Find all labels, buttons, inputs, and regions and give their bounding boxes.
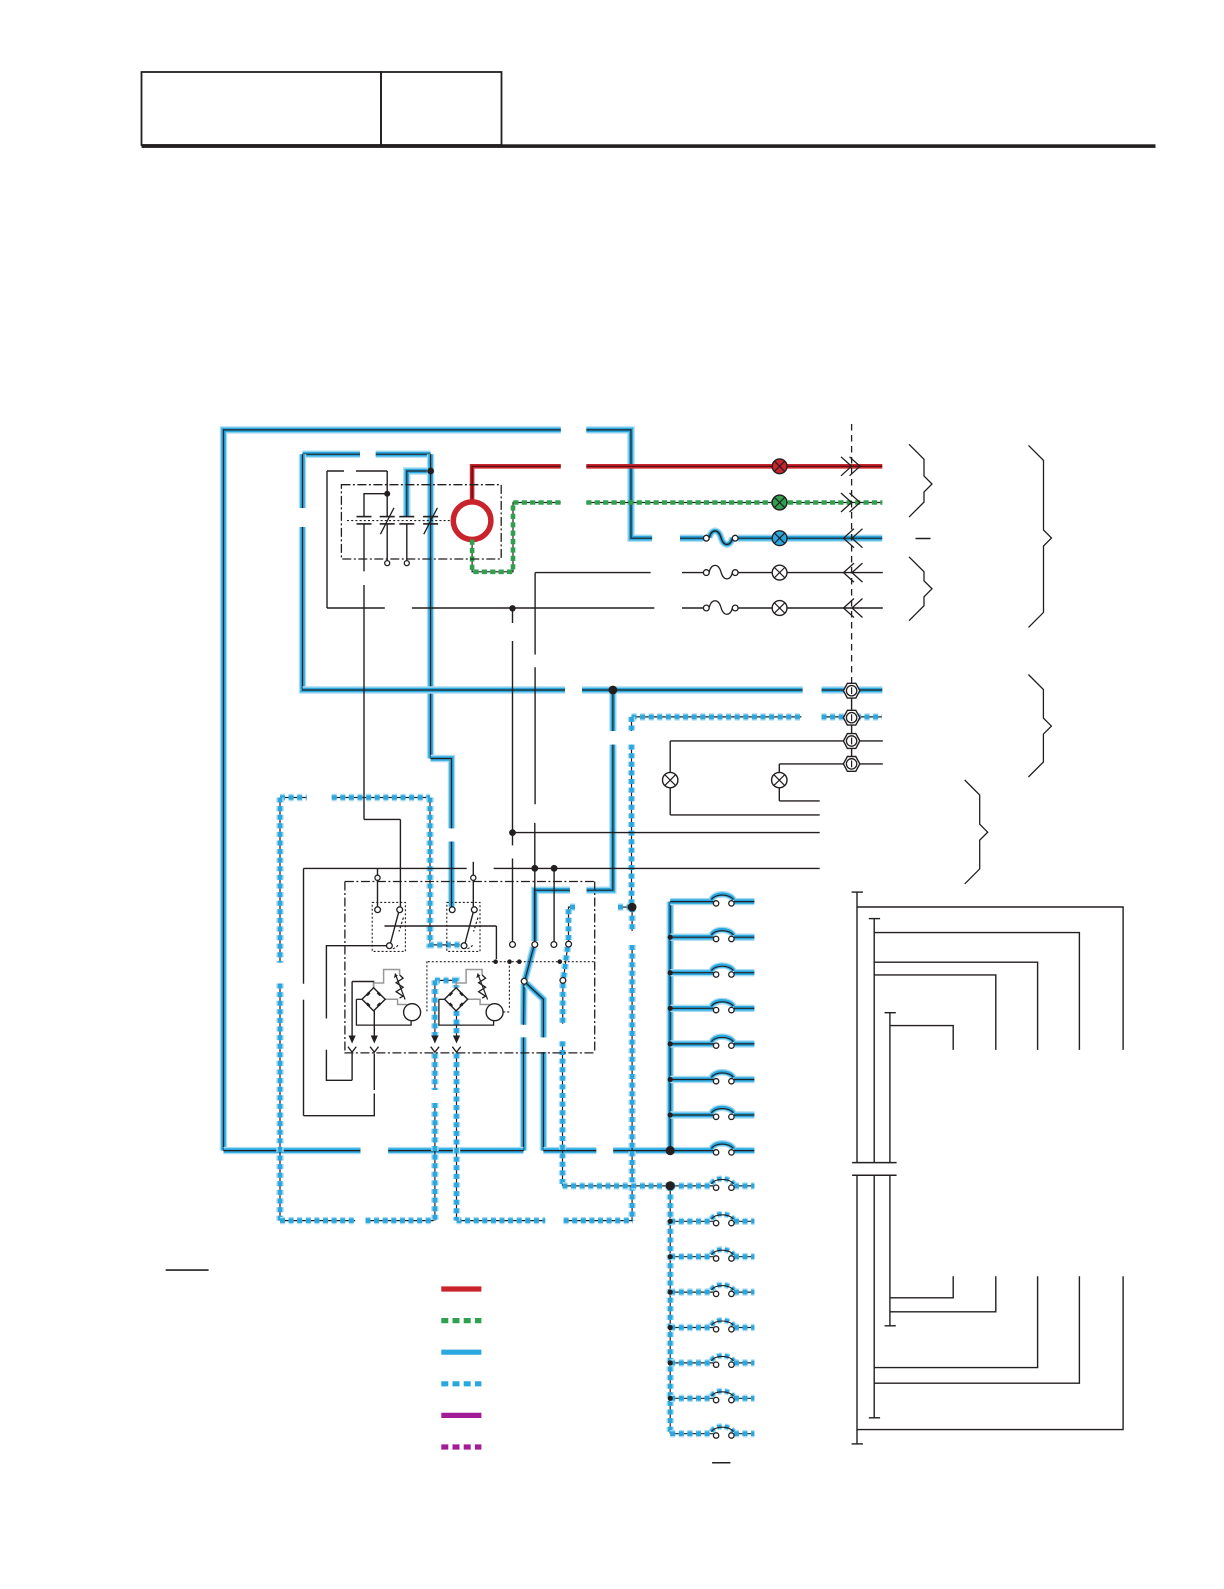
ignition contact b plates: [380, 508, 395, 534]
wire: green dashed right segment: [586, 502, 882, 504]
wire: ladder dashed rail: [669, 1186, 671, 1434]
relay K2 pins: [449, 907, 477, 949]
connector boundary dashed line: [851, 424, 853, 684]
contact C lower pin: [404, 561, 409, 566]
ground bus V1: [852, 892, 863, 1163]
ground bus V3 lower branch b: [890, 1276, 996, 1312]
dashed circuit breaker row 1: [712, 1179, 735, 1191]
wire: switch output solid 1: [520, 984, 528, 1151]
junction dot blue main: [609, 686, 618, 695]
switch pin P2: [532, 942, 538, 948]
dashed ladder junction dot 3: [668, 1254, 673, 1259]
wire: blue bottom to ladder: [543, 1147, 670, 1154]
brace D (bolt rows): [1028, 675, 1051, 778]
motor assembly A2 body (bridge rectifier, resistor, motor): [439, 970, 503, 1026]
connector chevrons red row: [841, 457, 860, 476]
wire: thin box left edge: [326, 471, 328, 608]
dashed ladder junction dot big: [666, 1181, 675, 1190]
lamp symbol row 2 circle-X: [772, 601, 787, 616]
bolt B4 (lamp row 2): [843, 757, 859, 772]
connector arrow A1 right: [371, 1036, 378, 1044]
ladder junction dot 3: [668, 970, 673, 975]
ground bus V2: [869, 919, 880, 1163]
circuit breaker row 7: [712, 1108, 735, 1120]
circuit breaker row 3: [712, 965, 735, 977]
wire: blue branch B jog to relay K2: [431, 759, 452, 907]
junction dot blue dashed: [628, 903, 637, 912]
ignition switch dash-dot box: [341, 485, 501, 559]
wire: dashed ladder rung 2: [670, 1220, 754, 1222]
wire: blue main horizontal: [303, 686, 883, 694]
switch pin P1: [510, 942, 516, 948]
lamp symbol red circle-X: [772, 459, 787, 474]
wire: thin box top edge: [327, 470, 387, 472]
wire: blue main loop top right segment: [586, 430, 652, 538]
relay K2 dotted box: [447, 902, 480, 951]
wire: ladder solid rail: [667, 902, 674, 1151]
junction dot blue branch: [427, 468, 434, 475]
dotted linkage line: [428, 961, 595, 963]
dash mark bottom: [712, 1462, 730, 1464]
circuit breaker row 6: [712, 1072, 735, 1084]
ground bus V2 lower branch b: [874, 1276, 1079, 1383]
wire: blue dashed rect top: [280, 797, 430, 799]
relay K2 arm: [465, 912, 473, 943]
wire: switch feed x535: [534, 573, 536, 942]
ground bus V3 lower: [885, 1175, 896, 1326]
ground bus V3 lower branch a: [890, 1276, 953, 1298]
wire: blue branch B left vertical: [299, 454, 306, 689]
wire: contact B tail: [386, 524, 388, 560]
ignition contact d plates: [423, 508, 438, 534]
dash mark left: [166, 1269, 209, 1271]
connector chevron A2 left: [431, 1047, 439, 1053]
connector chevron A2 right: [452, 1047, 460, 1053]
switch common pin P5: [521, 978, 527, 984]
ladder junction dot 2: [668, 935, 673, 940]
contact B lower pin: [385, 561, 390, 566]
bolt B1 (blue solid row): [843, 683, 859, 698]
wire: ladder rung 7: [670, 1111, 754, 1118]
lamp L1 circle-X: [663, 772, 678, 787]
brace E (lamp circuit rows): [965, 780, 988, 884]
wire: contact C tail: [406, 524, 408, 560]
wire: ladder rung 6: [670, 1076, 754, 1083]
fuse F2 (row 1): [703, 565, 738, 579]
connector chevrons green row: [841, 493, 860, 512]
junction dot y868 b: [551, 865, 558, 872]
circuit breaker row 5: [712, 1037, 735, 1049]
lamp symbol row 1 circle-X: [772, 565, 787, 580]
wire: lamp L1 leads: [670, 741, 820, 815]
connector chevrons blue row: [844, 529, 863, 548]
box edge pin circle 2: [471, 875, 476, 880]
connector arrow A2 left: [431, 1036, 438, 1044]
brace A (red green rows): [909, 444, 932, 517]
dashed circuit breaker row 6: [712, 1356, 735, 1368]
ground bus V2 branch a: [874, 933, 1079, 1050]
component dash-dot box: [344, 882, 594, 1053]
bolt B2 (blue dashed row): [843, 710, 859, 725]
circuit breaker row 8: [712, 1143, 735, 1155]
wire: sense line y832: [513, 832, 820, 834]
ground bus V3: [885, 1013, 896, 1163]
ladder junction dot 5: [668, 1041, 673, 1046]
wire: blue branch B horizontal: [303, 451, 431, 458]
ground bus V3 branch: [890, 1026, 953, 1050]
wire: red feed right segment: [586, 464, 882, 469]
legend: blue solid: [441, 1350, 481, 1355]
ground bus V2 lower branch a: [874, 1276, 1037, 1367]
wire: contact A tail: [363, 524, 365, 571]
linkage dot 1: [493, 959, 498, 964]
wire: box pin 1 feed: [377, 868, 379, 906]
ground bus junction bars: [852, 1163, 897, 1176]
box edge pin circle 1: [375, 875, 380, 880]
wire: blue main vertical drop: [535, 690, 613, 941]
wire: switch feed x512: [512, 608, 514, 941]
junction dot row 2: [509, 605, 515, 611]
wire: dashed ladder rung 4: [670, 1291, 754, 1293]
legend: red solid: [441, 1286, 481, 1291]
legend: blue dashed: [441, 1381, 481, 1386]
connector chevron A1 right: [370, 1047, 378, 1053]
connector chevrons row 2: [844, 599, 863, 618]
linkage dot 2: [507, 959, 512, 964]
wire: motor assembly A1 feed: [352, 982, 374, 1038]
wire: dashed feed to dashed ladder: [563, 1185, 671, 1187]
wire: switch output solid 2: [527, 984, 544, 1151]
wire: blue dashed main vertical: [631, 717, 633, 907]
lamp symbol blue circle-X: [772, 531, 787, 546]
wire: ignition feed long vertical: [364, 585, 400, 907]
circuit breaker row 4: [712, 1001, 735, 1013]
ground bus V2 lower: [869, 1175, 880, 1418]
brace C (large all feed rows): [1029, 445, 1052, 627]
switch pin P3: [551, 942, 557, 948]
wire: switch feed x554: [553, 868, 555, 941]
wire: blue dashed rect right to relay K2: [430, 798, 460, 945]
relay K1 arm: [391, 912, 399, 943]
wire: dashed ladder rung 7: [670, 1397, 754, 1399]
wire: dashed ladder rung 6: [670, 1362, 754, 1364]
ignition contact a plates: [357, 517, 372, 524]
wire: red feed from gauge: [472, 466, 561, 502]
dashed ladder junction dot 2: [668, 1219, 673, 1224]
wire: blue dashed row y717: [632, 716, 883, 718]
wire: blue bottom return left: [224, 1147, 524, 1154]
wire: motor assembly A2 feed: [435, 980, 456, 1037]
relay K1 dotted box: [372, 902, 405, 951]
wire: A2 return: [456, 1011, 458, 1037]
ladder junction dot 7: [668, 1112, 673, 1117]
wire: lamp feed row 2: [779, 763, 883, 765]
wire: dashed ladder rung 1: [670, 1185, 754, 1187]
ladder junction dot 6: [668, 1077, 673, 1082]
wire: switch arm blue solid: [525, 947, 533, 979]
wire: A1 return: [373, 1011, 375, 1037]
dashed ladder junction dot 6: [668, 1360, 673, 1365]
wire: ladder rung 8: [670, 1147, 754, 1154]
wire: blue main loop left vertical and top edge: [224, 430, 561, 1151]
wire: A2 left below box: [434, 1054, 436, 1221]
wire: blue fuse row stub: [680, 535, 703, 542]
dashed circuit breaker row 4: [712, 1285, 735, 1297]
ground bus V1 branch: [857, 907, 1123, 1050]
bolt column links: [851, 698, 853, 757]
wire: blue fuse row to connector: [738, 535, 882, 542]
wire: blue dashed branch to switch: [569, 907, 633, 941]
wire: linkage corner drop: [495, 926, 497, 959]
dashed ladder junction dot 7: [668, 1396, 673, 1401]
lamp L2 circle-X: [772, 772, 787, 787]
wire: A2 return below box: [456, 1054, 458, 1221]
linkage dot 4: [558, 959, 563, 964]
ground bus V2 branch c: [874, 975, 996, 1050]
ground bus V2 branch b: [874, 962, 1037, 1050]
header title block boxes: [142, 72, 502, 145]
wire: switch arm blue dashed: [564, 947, 568, 978]
lamp symbol green circle-X: [772, 495, 787, 510]
legend: purple dashed: [441, 1444, 481, 1449]
brace B (fused rows): [909, 557, 932, 621]
wire: blue dashed rect bottom: [280, 1220, 633, 1222]
junction dot contact stem: [384, 491, 390, 497]
wire: dashed ladder rung 3: [670, 1256, 754, 1258]
legend: green dashed: [441, 1318, 481, 1323]
wire: sense line y868: [304, 868, 820, 1115]
wire: accessory feed row 1 right: [682, 572, 883, 574]
wire: green dashed from gauge bottom: [472, 503, 561, 572]
connector chevrons row 1: [844, 563, 863, 582]
dashed ladder junction dot 4: [668, 1290, 673, 1295]
wire: A1 left below box: [351, 1054, 353, 1081]
legend: purple solid: [441, 1413, 481, 1418]
wire: A1 return below box: [304, 1054, 375, 1116]
wire: lamp L2 leads: [779, 764, 819, 801]
linkage dot 3: [517, 959, 522, 964]
circuit breaker row 1: [712, 894, 735, 906]
wire: ladder rung 4: [670, 1005, 754, 1012]
junction dot y832: [509, 829, 516, 836]
switch pin P4: [566, 941, 572, 947]
junction dot y868 a: [531, 865, 538, 872]
dashed circuit breaker row 3: [712, 1249, 735, 1261]
gauge M1 red circle: [453, 502, 491, 540]
wire: ladder rung 2: [670, 934, 754, 941]
wire: ladder rung 1: [670, 898, 754, 905]
relay K2 alt contact tick: [468, 918, 479, 949]
switch common pin P6: [560, 978, 566, 984]
bolt B3 (lamp row 1): [843, 734, 859, 749]
wire: ladder rung 5: [670, 1040, 754, 1047]
wire: blue branch to ignition contact c: [407, 471, 431, 517]
motor assembly A1 body (bridge rectifier, resistor, motor): [356, 970, 420, 1026]
wire: accessory feed row 1 left: [535, 572, 651, 574]
dashed circuit breaker row 8: [712, 1426, 735, 1438]
wire: blue dashed rect left: [279, 798, 281, 1221]
ignition mechanical dotted line: [347, 520, 452, 522]
wire: accessory feed row 2: [327, 607, 883, 609]
wire: ladder rung 3: [670, 969, 754, 976]
relay K1 pins: [375, 907, 403, 949]
circuit breaker row 2: [712, 930, 735, 942]
wire: contact A stem: [364, 494, 387, 517]
fuse F3 (row 2): [703, 601, 738, 615]
dashed circuit breaker row 2: [712, 1214, 735, 1226]
wire: blue branch B down through contact d: [427, 454, 434, 758]
wire: lamp feed row 1: [670, 740, 883, 742]
wire: relay linkage line: [385, 925, 497, 927]
connector arrow A2 right: [453, 1036, 460, 1044]
ladder junction dot big: [666, 1146, 675, 1155]
ignition contact c plates: [399, 517, 414, 524]
ground bus V1 lower: [852, 1175, 1124, 1444]
wire: dashed ladder rung 5: [670, 1327, 754, 1329]
wire: relay K1 output: [326, 946, 386, 1081]
fuse F1 (blue row): [703, 531, 738, 545]
wire: contact B stem: [386, 471, 388, 517]
wire: box pin 2 feed: [472, 862, 474, 907]
assembly A2 dotted box edges: [427, 961, 510, 1012]
relay K1 alt contact tick: [393, 918, 404, 949]
connector arrow A1 left: [349, 1036, 356, 1044]
connector chevron A1 left: [348, 1047, 356, 1053]
ladder junction dot 4: [668, 1006, 673, 1011]
header horizontal rule: [142, 144, 1156, 148]
dash mark near blue row: [916, 538, 931, 540]
dashed circuit breaker row 5: [712, 1320, 735, 1332]
wire: dashed ladder rung 8: [670, 1433, 754, 1435]
dashed circuit breaker row 7: [712, 1391, 735, 1403]
wire: switch output dashed: [562, 983, 564, 1186]
wire: blue dashed main vertical lower: [631, 907, 633, 1221]
dashed ladder junction dot 5: [668, 1325, 673, 1330]
